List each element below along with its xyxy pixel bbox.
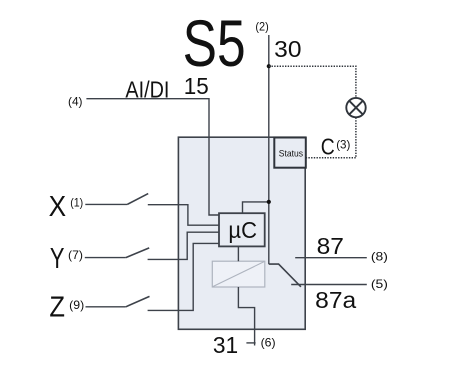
wire 15/AI-DI input: [86, 99, 219, 215]
svg-text:(7): (7): [68, 248, 83, 262]
svg-text:S5: S5: [183, 7, 246, 80]
relay coil K1: [212, 261, 264, 287]
terminal 31 tick: [246, 342, 255, 344]
svg-text:(1): (1): [70, 195, 83, 209]
wire Z input: [86, 306, 126, 308]
svg-text:AI/DI: AI/DI: [125, 77, 169, 103]
wire coil to terminal 31: [238, 287, 254, 346]
wire Y to uC: [148, 232, 219, 259]
wire Z to uC: [148, 243, 219, 310]
wire 87a: [291, 284, 367, 286]
wire X input: [85, 203, 127, 205]
svg-text:(2): (2): [255, 19, 268, 33]
node junction dot top: [267, 64, 271, 68]
switch X blade: [127, 194, 148, 205]
svg-text:15: 15: [184, 73, 209, 99]
lamp X stroke 2: [349, 101, 363, 115]
lamp X stroke 1: [349, 101, 363, 115]
svg-text:C: C: [321, 134, 335, 160]
wire Y input: [85, 257, 126, 259]
relay contact blade 30-87a: [269, 264, 301, 287]
svg-text:X: X: [49, 191, 67, 223]
relay module body S5: [178, 137, 305, 329]
svg-text:Status: Status: [279, 148, 304, 159]
svg-text:(9): (9): [69, 298, 84, 312]
svg-text:31: 31: [213, 332, 238, 358]
wire 30 vertical: [268, 35, 270, 264]
wire branch 30 to uC: [243, 202, 269, 213]
wire 87: [295, 257, 367, 259]
switch Y blade: [126, 248, 149, 258]
wire uC to coil: [237, 246, 239, 261]
svg-text:(5): (5): [371, 277, 388, 291]
svg-text:87a: 87a: [315, 287, 356, 313]
svg-text:(8): (8): [371, 249, 388, 263]
dotted wire 30 to lamp: [269, 66, 356, 98]
uC box: [219, 213, 265, 246]
dotted wire lamp to status: [306, 118, 356, 158]
svg-text:(3): (3): [336, 138, 350, 152]
relay coil diagonal: [213, 261, 265, 286]
svg-text:(6): (6): [261, 335, 276, 349]
svg-text:(4): (4): [68, 94, 83, 108]
status box: [274, 138, 306, 168]
lamp C indicator circle: [346, 98, 365, 117]
svg-text:87: 87: [317, 233, 344, 259]
svg-text:Y: Y: [50, 243, 65, 275]
svg-text:µC: µC: [228, 217, 257, 243]
svg-text:Z: Z: [49, 292, 65, 324]
switch Z blade: [126, 296, 150, 306]
svg-text:30: 30: [274, 36, 301, 62]
wire X to uC: [148, 205, 219, 226]
node junction dot uC branch: [267, 200, 271, 204]
